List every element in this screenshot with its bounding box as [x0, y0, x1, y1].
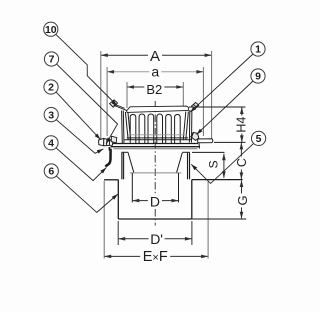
- svg-text:G: G: [235, 195, 250, 205]
- svg-text:10: 10: [45, 24, 57, 36]
- svg-text:5: 5: [256, 133, 262, 145]
- svg-text:H4: H4: [235, 117, 249, 133]
- svg-text:D: D: [150, 193, 160, 209]
- svg-text:4: 4: [48, 138, 54, 150]
- svg-text:E×F: E×F: [143, 249, 168, 265]
- svg-text:7: 7: [49, 54, 55, 66]
- svg-text:D': D': [150, 231, 163, 247]
- svg-text:S: S: [207, 160, 221, 168]
- svg-text:9: 9: [255, 71, 261, 83]
- svg-text:1: 1: [255, 44, 261, 56]
- svg-text:B2: B2: [146, 82, 162, 97]
- svg-text:2: 2: [48, 82, 54, 94]
- svg-text:6: 6: [48, 166, 54, 178]
- svg-text:a: a: [151, 63, 159, 79]
- svg-text:3: 3: [48, 109, 54, 121]
